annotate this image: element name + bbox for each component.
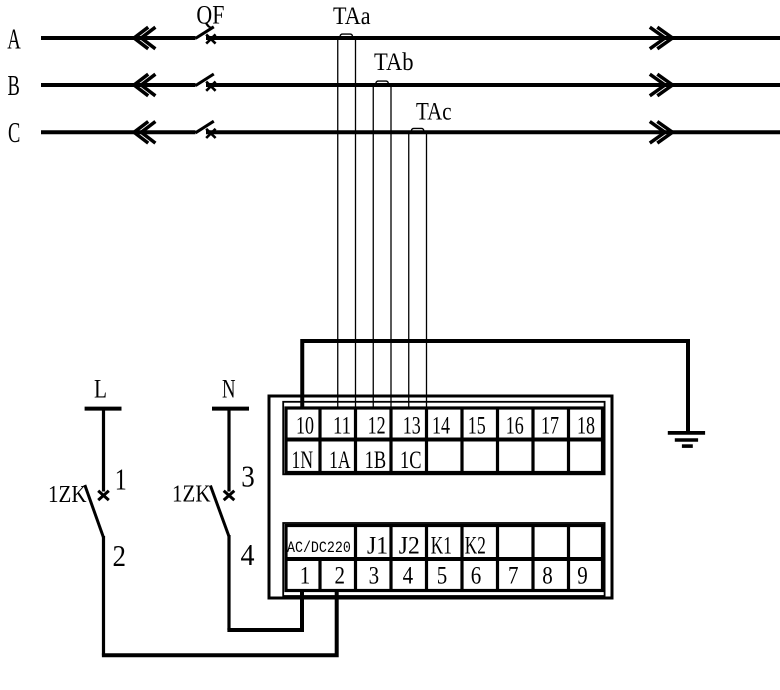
bus C wire — [41, 130, 780, 134]
svg-text:1ZK: 1ZK — [48, 482, 87, 508]
svg-text:1ZK: 1ZK — [172, 482, 211, 508]
svg-text:18: 18 — [577, 413, 595, 440]
svg-text:1C: 1C — [400, 447, 422, 474]
CT TAb winding arc — [376, 81, 388, 83]
svg-text:17: 17 — [541, 413, 559, 440]
svg-text:TAa: TAa — [333, 3, 371, 30]
svg-text:TAb: TAb — [374, 49, 414, 76]
switch 1ZK (L) contact cross — [98, 491, 109, 500]
bus A wire — [41, 36, 780, 40]
device outer box — [269, 396, 612, 598]
svg-text:8: 8 — [542, 563, 553, 590]
upper terminal strip outline — [283, 402, 604, 475]
svg-text:1: 1 — [115, 462, 127, 497]
node N terminal bar — [212, 407, 249, 411]
svg-text:10: 10 — [296, 413, 314, 440]
wire L run to terminal 2 — [102, 592, 337, 655]
svg-text:AC/DC220: AC/DC220 — [287, 539, 351, 557]
wire L to switch contact 1 — [102, 409, 105, 492]
svg-text:3: 3 — [369, 563, 380, 590]
bus B wire — [41, 83, 780, 87]
svg-text:7: 7 — [508, 563, 519, 590]
svg-text:B: B — [8, 70, 20, 102]
left double arrow on bus A — [134, 27, 155, 49]
right double arrow on bus C — [650, 122, 673, 144]
svg-text:L: L — [94, 375, 107, 404]
svg-text:2: 2 — [113, 538, 127, 573]
svg-text:4: 4 — [403, 563, 414, 590]
svg-text:QF: QF — [196, 1, 224, 30]
wire terminal 10 to earth — [302, 341, 688, 432]
switch 1ZK (N) blade — [210, 486, 229, 537]
svg-text:11: 11 — [333, 413, 351, 440]
svg-text:J2: J2 — [399, 533, 420, 560]
CT TAa winding arc — [340, 34, 352, 36]
svg-text:TAc: TAc — [416, 98, 452, 125]
CT TAb secondary wire to terminal 12 — [372, 85, 374, 408]
svg-text:4: 4 — [241, 537, 255, 572]
svg-text:C: C — [8, 117, 20, 149]
breaker QF pole on bus A — [196, 27, 216, 44]
svg-text:K1: K1 — [431, 533, 452, 560]
svg-text:9: 9 — [577, 563, 588, 590]
node L terminal bar — [85, 407, 122, 411]
CT TAc secondary return wire — [426, 132, 428, 408]
left double arrow on bus B — [134, 74, 155, 96]
right double arrow on bus B — [650, 74, 673, 96]
ground symbol — [668, 433, 705, 446]
right double arrow on bus A — [650, 27, 673, 49]
svg-text:14: 14 — [432, 413, 450, 440]
svg-text:3: 3 — [241, 459, 255, 494]
wire contact 2 down — [102, 536, 105, 656]
CT TAb secondary return wire — [390, 85, 392, 408]
CT TAc secondary wire to terminal 13 — [408, 132, 410, 408]
svg-text:13: 13 — [403, 413, 421, 440]
left double arrow on bus C — [134, 122, 155, 144]
switch 1ZK (N) contact cross — [224, 491, 235, 500]
svg-text:N: N — [222, 375, 236, 404]
upper terminal strip grid — [286, 407, 603, 473]
breaker QF pole on bus C — [196, 121, 216, 138]
svg-text:15: 15 — [468, 413, 486, 440]
svg-text:1B: 1B — [365, 447, 387, 474]
svg-text:K2: K2 — [465, 533, 486, 560]
svg-text:A: A — [7, 23, 21, 55]
wire contact 4 down — [227, 535, 230, 630]
svg-text:1N: 1N — [292, 447, 314, 474]
lower terminal strip grid — [286, 526, 603, 591]
wire N run to terminal 1 — [227, 592, 302, 630]
svg-text:12: 12 — [368, 413, 386, 440]
svg-text:16: 16 — [506, 413, 524, 440]
CT TAa secondary return wire — [355, 38, 357, 408]
CT TAc winding arc — [411, 128, 423, 130]
svg-text:5: 5 — [437, 563, 448, 590]
svg-text:2: 2 — [335, 563, 346, 590]
svg-text:6: 6 — [471, 563, 482, 590]
svg-text:1A: 1A — [329, 447, 351, 474]
lower terminal strip outline — [283, 523, 604, 596]
svg-text:J1: J1 — [367, 533, 388, 560]
breaker QF pole on bus B — [196, 74, 216, 91]
CT TAa secondary wire to terminal 11 — [337, 38, 339, 408]
switch 1ZK (L) blade — [85, 485, 104, 538]
svg-text:1: 1 — [300, 563, 311, 590]
wire N to switch contact 3 — [227, 409, 230, 492]
